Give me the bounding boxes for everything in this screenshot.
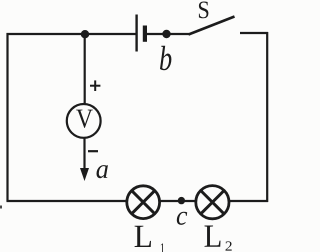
wire: bottom side of loop: [7, 200, 269, 202]
voltmeter V1 circle: [67, 104, 101, 138]
wire: switch fixed contact to top-right corner: [240, 32, 268, 34]
plus polarity mark: [90, 85, 100, 87]
wire: voltmeter down to probe arrow: [83, 138, 85, 172]
wire: top from left corner to battery positive plate: [7, 33, 137, 35]
scan smudge at left edge: [0, 206, 2, 209]
battery short thick plate (negative): [143, 26, 147, 42]
battery long plate (positive): [135, 15, 137, 52]
node b junction dot: [162, 30, 170, 38]
probe arrowhead pointing to a: [80, 168, 89, 181]
label L2: [205, 226, 232, 251]
label S: [199, 2, 209, 19]
label c: [177, 212, 187, 225]
lamp L1 (circle with X): [127, 186, 160, 219]
lamp L2 (circle with X): [196, 186, 229, 219]
wire: battery to switch pivot: [147, 33, 189, 35]
voltmeter letter V: [76, 110, 93, 128]
label L1: [135, 226, 165, 252]
minus polarity mark: [88, 150, 98, 152]
label b: [160, 46, 171, 70]
switch S blade (open): [189, 17, 235, 35]
junction dot at voltmeter branch tap: [81, 30, 89, 38]
wire: right vertical side of loop: [266, 32, 268, 202]
wire: junction down to voltmeter: [84, 34, 86, 105]
node c dot: [178, 197, 185, 204]
wire: left vertical side of loop: [6, 33, 8, 202]
label a: [97, 165, 108, 178]
